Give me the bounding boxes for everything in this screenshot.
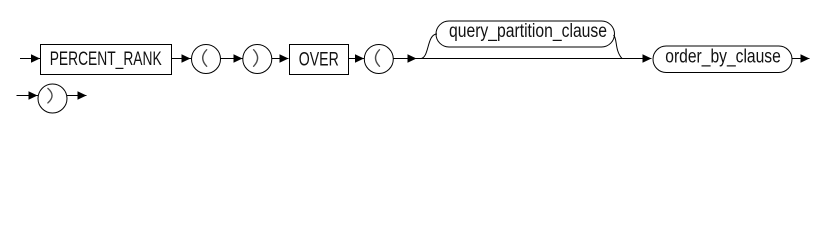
- svg-text:OVER: OVER: [299, 49, 339, 70]
- svg-text:order_by_clause: order_by_clause: [665, 47, 781, 68]
- svg-text:PERCENT_RANK: PERCENT_RANK: [50, 49, 162, 70]
- svg-text:query_partition_clause: query_partition_clause: [449, 21, 607, 42]
